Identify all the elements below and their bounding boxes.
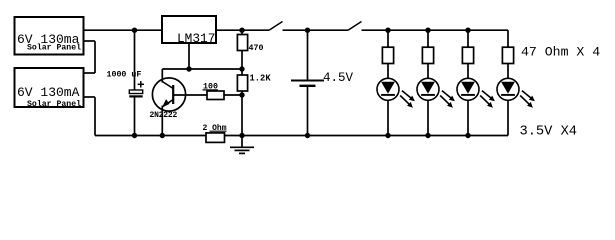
svg-text:3.5V X4: 3.5V X4 [520,125,578,140]
svg-text:LM317: LM317 [177,31,215,46]
svg-text:4.5V: 4.5V [323,71,354,85]
svg-text:1.2K: 1.2K [250,74,272,84]
svg-text:47 Ohm X 4: 47 Ohm X 4 [521,45,600,60]
svg-text:470: 470 [249,44,264,53]
svg-text:Solar Panel: Solar Panel [27,99,81,109]
svg-text:2N2222: 2N2222 [150,111,178,120]
svg-text:6V 130mA: 6V 130mA [17,85,80,100]
svg-text:1000 uF: 1000 uF [107,71,142,80]
svg-text:Solar Panel: Solar Panel [27,43,81,53]
